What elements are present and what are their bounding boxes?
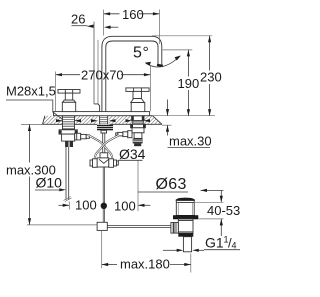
base plate bbox=[54, 112, 150, 116]
left supply pipe bbox=[64, 147, 72, 202]
extension line 100 right / from diameter34 label bbox=[137, 161, 139, 212]
svg-text:Ø10: Ø10 bbox=[36, 175, 63, 191]
hole arrows center bbox=[91, 119, 116, 122]
svg-text:26: 26 bbox=[71, 12, 85, 27]
label M28x1,5 bbox=[6, 84, 68, 124]
right handle bbox=[126, 88, 149, 112]
svg-text:5°: 5° bbox=[133, 45, 150, 62]
label G1 1/4 bbox=[163, 235, 240, 252]
center shank and nut bbox=[97, 116, 113, 133]
hole arrows right bbox=[126, 119, 151, 122]
deck hatch bbox=[34, 114, 176, 126]
right hose bbox=[95, 135, 119, 158]
dimension 230 bbox=[200, 36, 222, 116]
label diameter 34 bbox=[118, 146, 146, 162]
svg-text:Ø63: Ø63 bbox=[156, 176, 187, 193]
label diameter 10 bbox=[35, 175, 66, 192]
extension line max180 left bbox=[101, 231, 103, 268]
svg-text:100: 100 bbox=[75, 198, 97, 213]
deck bottom left extension line bbox=[21, 123, 43, 125]
svg-text:Ø34: Ø34 bbox=[119, 146, 146, 162]
left valve below deck bbox=[59, 116, 90, 147]
pop-up rod lower bbox=[102, 167, 104, 222]
tee fitting bbox=[90, 153, 118, 168]
dimension 270x70 bbox=[56, 68, 151, 83]
svg-text:100: 100 bbox=[114, 199, 136, 214]
dimension 40-53 bbox=[195, 190, 240, 236]
extension line 160 right bbox=[158, 10, 160, 45]
left hose bbox=[89, 135, 113, 158]
rod coupling bbox=[97, 222, 107, 230]
extension line max180 right bbox=[190, 254, 192, 273]
dimension 160 bbox=[104, 7, 160, 22]
dimension 190 bbox=[177, 50, 200, 116]
svg-text:230: 230 bbox=[200, 70, 222, 85]
pop-up rod upper bbox=[102, 133, 104, 154]
extension line 230 top bbox=[152, 35, 212, 37]
svg-text:G1: G1 bbox=[205, 235, 224, 251]
dimension max.180 bbox=[102, 257, 191, 272]
svg-text:M28x1,5: M28x1,5 bbox=[6, 84, 56, 99]
svg-text:160: 160 bbox=[122, 7, 144, 22]
hole arrows left bbox=[56, 119, 81, 122]
label diameter 63 bbox=[138, 176, 188, 193]
horizontal pull rod bbox=[107, 225, 171, 227]
dimension 100 100 bbox=[59, 198, 151, 214]
svg-text:max.180: max.180 bbox=[120, 257, 170, 272]
extension line A bbox=[93, 22, 95, 104]
dimension max.30 bbox=[166, 100, 212, 149]
svg-text:270x70: 270x70 bbox=[81, 68, 124, 83]
dimension max.300 bbox=[5, 125, 56, 225]
extension line 270x70 left bbox=[55, 72, 57, 112]
svg-text:40-53: 40-53 bbox=[207, 203, 240, 218]
extension line 190 top bbox=[163, 49, 193, 51]
pop-up waste bbox=[171, 198, 198, 252]
diameter 63 right arrow bbox=[201, 189, 224, 192]
deck bottom extension line bbox=[162, 124, 172, 126]
svg-text:max.30: max.30 bbox=[169, 134, 212, 149]
left handle bbox=[58, 90, 80, 112]
extension line B bbox=[103, 10, 105, 36]
max300 extension line bottom bbox=[27, 224, 97, 226]
spout bbox=[94, 36, 163, 111]
dimension 26 bbox=[71, 12, 118, 29]
svg-text:190: 190 bbox=[178, 76, 200, 91]
svg-text:4: 4 bbox=[232, 241, 237, 251]
right valve below deck bbox=[116, 116, 146, 146]
label 5 degrees bbox=[133, 45, 181, 68]
extension line 270x70 right bbox=[149, 66, 151, 111]
deck top extension line bbox=[153, 115, 216, 117]
